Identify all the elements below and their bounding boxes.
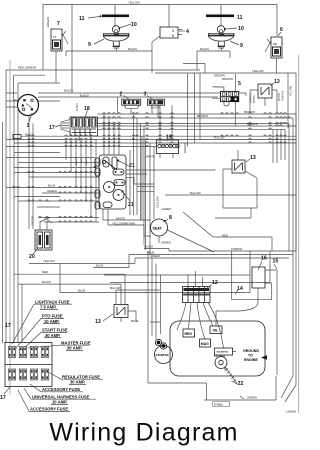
regulator REG (183, 329, 195, 337)
svg-text:GREEN: GREEN (47, 189, 57, 193)
svg-text:4: 4 (186, 29, 189, 35)
wire ground green (204, 376, 276, 400)
svg-text:OIL: OIL (213, 329, 219, 333)
svg-text:30 AMP.: 30 AMP. (67, 346, 82, 351)
wire engine leads (144, 251, 207, 400)
svg-text:9: 9 (240, 43, 243, 49)
svg-text:7.5 AMP.: 7.5 AMP. (40, 305, 57, 310)
wire left bus 3 (14, 83, 60, 343)
relay 4 (152, 27, 189, 42)
oil switch OIL (210, 326, 222, 334)
svg-text:MAG: MAG (201, 342, 209, 346)
wire crossover bumps band (103, 113, 291, 130)
svg-text:YELLOW: YELLOW (128, 0, 140, 4)
relay 5 (212, 73, 241, 126)
svg-text:BLACK: BLACK (76, 103, 79, 111)
solenoid (215, 348, 233, 355)
svg-text:YELLOW: YELLOW (43, 259, 55, 263)
wire black under right headlight (197, 48, 230, 70)
svg-text:PURPLE: PURPLE (231, 247, 242, 251)
wire black under left headlight (66, 42, 152, 73)
svg-text:YELLOW: YELLOW (290, 85, 293, 96)
svg-text:BLUE: BLUE (131, 319, 138, 323)
switch 6 (265, 27, 283, 58)
svg-text:YELLOW: YELLOW (156, 196, 160, 208)
svg-text:16: 16 (261, 256, 267, 262)
seat switch 8 (151, 215, 173, 236)
wire yellow 195 (165, 142, 296, 196)
wire keyswitch feeds (6, 93, 246, 101)
svg-text:STARTER: STARTER (156, 353, 169, 357)
wire module right laterals (126, 169, 215, 192)
wire yellow right bus (155, 73, 296, 128)
svg-text:ACCESSORY FUSE: ACCESSORY FUSE (30, 407, 68, 412)
magneto MAG (200, 339, 211, 347)
connector 12 (183, 271, 218, 303)
wire module right risers (130, 114, 144, 245)
interlock switch 13b (215, 150, 257, 218)
svg-text:YELLOW: YELLOW (213, 136, 225, 140)
svg-text:13: 13 (274, 79, 280, 85)
svg-text:GREEN: GREEN (183, 143, 187, 153)
starter (155, 339, 173, 363)
fuse labels upper (12, 299, 91, 352)
svg-text:GREEN: GREEN (31, 216, 35, 226)
svg-text:14: 14 (237, 286, 243, 292)
svg-text:GREEN: GREEN (162, 207, 172, 211)
svg-text:HR: HR (273, 42, 277, 46)
svg-text:21: 21 (128, 202, 134, 208)
wire yellow red black blue left (14, 259, 270, 292)
svg-text:5: 5 (238, 81, 241, 87)
svg-text:BLACK: BLACK (200, 47, 209, 51)
fuse block 17 (0, 343, 52, 402)
switch 7 (46, 17, 68, 51)
svg-text:ACCESSORY FUSE: ACCESSORY FUSE (42, 387, 80, 392)
wire 12 fanout (177, 288, 258, 352)
connector 3 (144, 92, 173, 141)
wire yellow mid right (183, 136, 296, 139)
svg-text:BLACK: BLACK (144, 244, 153, 248)
ground to engine (243, 349, 267, 362)
wire right edge risers (150, 251, 270, 322)
connector 19 (146, 135, 187, 159)
svg-text:Wiring Diagram: Wiring Diagram (49, 418, 238, 446)
key switch 1 (6, 75, 45, 129)
wire black purple band (144, 195, 296, 251)
svg-text:20: 20 (29, 254, 35, 260)
label D4006 (213, 402, 230, 407)
svg-text:13: 13 (95, 319, 101, 325)
wire seat area (142, 136, 154, 254)
svg-text:REG: REG (185, 332, 193, 336)
headlight 9 left (88, 22, 137, 48)
svg-text:BLUE: BLUE (78, 288, 85, 292)
svg-text:ENGINE: ENGINE (244, 358, 258, 362)
svg-text:SEAT: SEAT (153, 227, 163, 231)
wire top yellow bus (43, 5, 277, 94)
svg-text:2: 2 (120, 92, 123, 98)
connector 2 (118, 92, 141, 115)
svg-text:YELLOW: YELLOW (109, 286, 121, 290)
wire crossover bumps bandB (28, 135, 286, 147)
fuse holder 18 connector (49, 103, 98, 141)
control module 21 (94, 155, 135, 209)
svg-text:GROUND: GROUND (243, 349, 259, 353)
svg-text:10 AMP.: 10 AMP. (44, 319, 59, 324)
svg-text:17: 17 (0, 395, 6, 401)
interlock switch 13c (95, 305, 138, 326)
svg-text:12: 12 (212, 280, 218, 286)
light bar 11 left (102, 15, 129, 18)
svg-text:8: 8 (169, 215, 172, 221)
svg-text:BROWN: BROWN (214, 73, 225, 77)
svg-text:BROWN: BROWN (222, 77, 233, 81)
svg-text:6: 6 (280, 27, 283, 33)
svg-text:9: 9 (88, 42, 91, 48)
wire band 5 (98, 129, 286, 163)
wire left bus 2 (9, 60, 11, 395)
svg-text:ORANGE: ORANGE (282, 90, 285, 101)
svg-text:BROWN: BROWN (197, 114, 208, 118)
wire left hop lines (6, 153, 99, 223)
clutch 22 (214, 354, 243, 387)
wire band B lines (6, 136, 296, 146)
svg-text:RED: RED (81, 158, 83, 163)
scan edge right (298, 55, 300, 413)
wire blue green 255 (129, 255, 293, 268)
connector 20 (29, 218, 52, 261)
wire seat leads (159, 212, 272, 252)
svg-text:D4006: D4006 (214, 403, 223, 407)
svg-text:17: 17 (49, 125, 55, 131)
svg-text:WHITE: WHITE (253, 95, 256, 103)
svg-text:YELLOW: YELLOW (189, 191, 201, 195)
svg-text:BLUE: BLUE (96, 263, 103, 267)
wire band 3 (98, 124, 290, 252)
svg-text:BLACK: BLACK (80, 93, 89, 97)
wire band 4 brown (98, 126, 297, 402)
svg-text:22: 22 (238, 381, 244, 387)
svg-text:RED: RED (222, 233, 228, 237)
svg-text:3: 3 (172, 29, 174, 33)
svg-text:17: 17 (53, 35, 57, 39)
wire crossover bumps left (13, 171, 92, 222)
svg-text:BLACK: BLACK (151, 106, 160, 110)
connector plug small left (13, 128, 296, 139)
svg-text:GREEN: GREEN (46, 17, 50, 27)
svg-text:CLUTCH: CLUTCH (214, 354, 225, 358)
connector 16 (252, 256, 278, 376)
wire mid verticals (183, 64, 205, 147)
svg-text:RED: RED (42, 270, 48, 274)
svg-text:BLUE: BLUE (48, 183, 55, 187)
wire to 13c (60, 263, 160, 304)
svg-text:15: 15 (273, 259, 279, 265)
svg-text:11: 11 (237, 15, 243, 21)
svg-text:RED 10AWGR: RED 10AWGR (18, 66, 36, 70)
fuse labels lower (18, 372, 103, 412)
wire module drops (66, 139, 96, 222)
svg-text:YELLOW: YELLOW (252, 69, 264, 73)
svg-text:13: 13 (250, 155, 256, 161)
svg-text:BLACK: BLACK (128, 47, 137, 51)
wire module bottom leads (103, 209, 151, 236)
svg-text:11: 11 (79, 16, 85, 22)
engine block (170, 321, 265, 376)
interlock switch 13a (250, 79, 285, 113)
svg-text:BLACK: BLACK (64, 89, 73, 93)
svg-text:10: 10 (238, 26, 244, 32)
wire switch drops (56, 51, 277, 83)
svg-text:10: 10 (131, 22, 137, 28)
wire ctr verticals down (29, 115, 33, 229)
svg-text:30 AMP.: 30 AMP. (45, 333, 60, 338)
svg-text:10 AMP.: 10 AMP. (52, 400, 67, 405)
svg-text:BLACK: BLACK (85, 157, 88, 165)
svg-text:3: 3 (144, 92, 147, 98)
svg-text:GREEN: GREEN (150, 254, 160, 258)
wire red 10awg (6, 70, 200, 343)
svg-text:19: 19 (166, 135, 172, 141)
wire band 2 (98, 118, 294, 398)
svg-text:7: 7 (57, 21, 60, 27)
wire module top drops (104, 114, 119, 155)
svg-text:130006: 130006 (286, 410, 296, 414)
wire far-left vertical (2, 122, 4, 343)
svg-text:GREEN: GREEN (247, 395, 257, 399)
svg-text:BLACK: BLACK (75, 157, 78, 165)
headlight 9 right (208, 26, 244, 49)
svg-text:8: 8 (172, 34, 174, 38)
svg-text:BLACK: BLACK (42, 280, 51, 284)
svg-text:SOLENOID: SOLENOID (217, 352, 229, 354)
cable 14 (232, 251, 272, 300)
svg-text:17: 17 (5, 323, 11, 329)
svg-text:TO: TO (248, 354, 253, 358)
light bar 11 right (206, 15, 234, 18)
wire brown band 1 (98, 114, 297, 128)
svg-text:GREEN: GREEN (161, 241, 171, 245)
svg-text:30 AMP.: 30 AMP. (70, 380, 85, 385)
